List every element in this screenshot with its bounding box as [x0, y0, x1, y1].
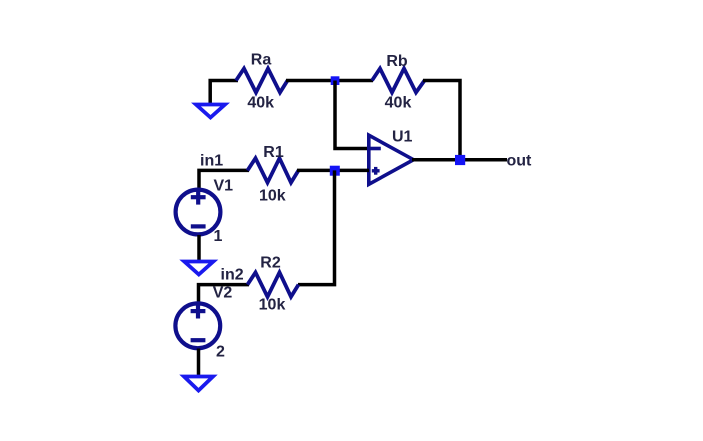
junction node J1 (Ra/Rb/inverting) [331, 76, 340, 85]
wire: summing junction down to R2 [298, 170, 335, 284]
wire: V1 to ground [197, 235, 201, 263]
svg-text:in2: in2 [221, 267, 244, 284]
ground (V2) [184, 377, 213, 391]
svg-text:1: 1 [214, 228, 223, 245]
resistor R2 [248, 272, 299, 296]
wire: Ra to Rb through junction [286, 79, 373, 83]
wire: V1 top to R1 (in1 net) [199, 170, 249, 189]
svg-text:40k: 40k [247, 95, 274, 112]
resistor Rb [372, 69, 425, 93]
ground (V1) [184, 262, 213, 275]
svg-text:out: out [507, 153, 533, 170]
V2 minus mark [191, 338, 206, 342]
voltage source V1 [176, 190, 221, 235]
svg-text:Ra: Ra [251, 52, 272, 69]
V1 minus mark [191, 224, 206, 228]
junction node J2 (summing) [330, 166, 340, 176]
op-amp inverting input mark [369, 147, 381, 151]
svg-text:40k: 40k [385, 95, 412, 112]
svg-text:R1: R1 [263, 144, 284, 161]
svg-text:Rb: Rb [386, 53, 408, 70]
svg-text:2: 2 [216, 344, 225, 361]
ground (Ra reference) [196, 105, 225, 118]
V2 body circle [175, 303, 220, 348]
V1 plus mark [191, 195, 206, 199]
op-amp U1 [369, 135, 414, 184]
wire: R1 to non-inverting input [297, 169, 369, 173]
svg-text:10k: 10k [259, 297, 286, 314]
wire: V2 to ground [197, 349, 201, 378]
voltage source V2 [175, 303, 220, 348]
V2 plus mark [191, 309, 206, 313]
resistor Ra [236, 69, 288, 93]
wire: junction J1 down to inverting input [335, 81, 369, 149]
wire: V2 top to R2 (in2 net) [199, 285, 250, 304]
svg-text:in1: in1 [200, 153, 223, 170]
svg-text:U1: U1 [392, 129, 413, 146]
V1 body circle [176, 190, 221, 235]
wire: ground stub up to Ra left lead [210, 81, 238, 106]
svg-text:V2: V2 [213, 285, 233, 302]
resistor R1 [248, 158, 299, 182]
svg-text:V1: V1 [214, 178, 234, 195]
wire: Rb to output node [423, 81, 460, 161]
op-amp U1 body [369, 135, 414, 184]
wire: op-amp output to out [412, 158, 507, 162]
svg-text:R2: R2 [260, 255, 281, 272]
svg-text:10k: 10k [259, 188, 286, 205]
op-amp non-inverting input mark [372, 167, 380, 175]
output node (out) [455, 155, 465, 165]
